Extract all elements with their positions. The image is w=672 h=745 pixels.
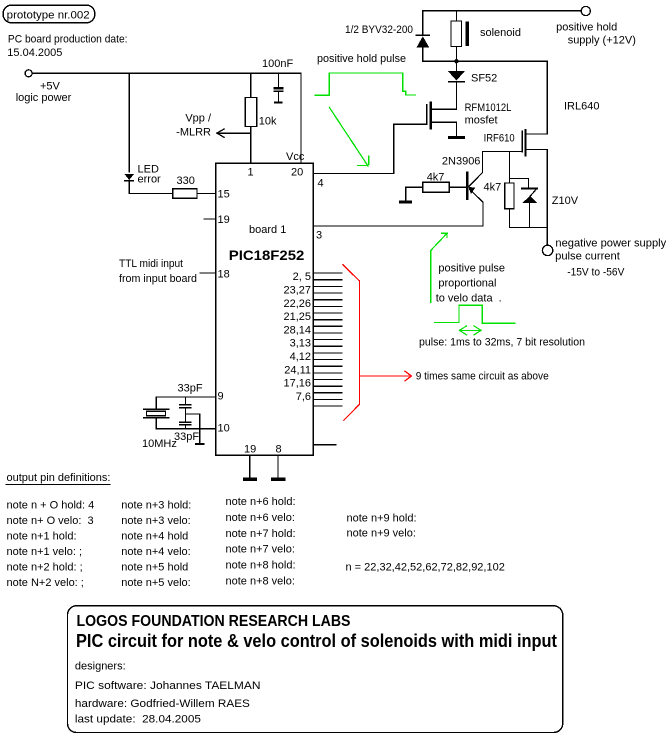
svg-text:IRL640: IRL640	[564, 101, 599, 113]
svg-text:note n+9 velo:: note n+9 velo:	[347, 528, 416, 540]
svg-text:hardware: Godfried-Willem RAES: hardware: Godfried-Willem RAES	[75, 698, 250, 710]
svg-text:positive hold: positive hold	[556, 22, 617, 34]
svg-text:7,6: 7,6	[296, 391, 311, 403]
resistor 330	[173, 175, 197, 198]
svg-text:SF52: SF52	[471, 73, 497, 85]
pin definition column 1	[7, 500, 95, 590]
velo pulse waveform	[435, 305, 515, 335]
svg-text:note n + O hold: 4: note n + O hold: 4	[7, 500, 95, 512]
prototype label box	[3, 5, 95, 23]
svg-text:4k7: 4k7	[427, 172, 445, 184]
svg-text:supply (+12V): supply (+12V)	[568, 35, 636, 47]
svg-text:Z10V: Z10V	[552, 195, 579, 207]
pin 8 ground	[271, 455, 285, 481]
svg-text:Vcc: Vcc	[286, 151, 305, 163]
svg-text:19: 19	[218, 214, 230, 226]
capacitor 33pF bottom	[174, 414, 199, 443]
green arrow velo	[431, 233, 448, 302]
pin pair labels	[283, 271, 311, 403]
pin 18 stub left	[200, 272, 216, 274]
svg-text:8: 8	[276, 444, 282, 456]
negative supply terminal	[542, 228, 666, 279]
PC board production date note	[7, 34, 127, 60]
svg-text:note n+6 velo:: note n+6 velo:	[226, 512, 295, 524]
svg-text:IRF610: IRF610	[484, 133, 515, 145]
svg-text:note n+ O velo: 3: note n+ O velo: 3	[7, 515, 94, 527]
svg-text:3: 3	[316, 230, 322, 242]
svg-text:note n+9 hold:: note n+9 hold:	[347, 513, 417, 525]
svg-text:330: 330	[177, 175, 195, 187]
svg-text:note N+2 velo: ;: note N+2 velo: ;	[7, 577, 84, 589]
svg-text:20: 20	[291, 167, 303, 179]
svg-text:board 1: board 1	[249, 224, 286, 236]
svg-text:positive pulse: positive pulse	[438, 263, 505, 275]
ground base resistor	[399, 201, 412, 204]
resistor 4k7 gate	[484, 151, 515, 227]
svg-text:note n+6 hold:: note n+6 hold:	[226, 496, 296, 508]
svg-text:note n+8 velo:: note n+8 velo:	[226, 576, 295, 588]
svg-text:19: 19	[244, 444, 256, 456]
svg-text:LOGOS FOUNDATION RESEARCH LABS: LOGOS FOUNDATION RESEARCH LABS	[77, 613, 351, 630]
bottom right stub	[313, 444, 336, 446]
svg-text:+5V: +5V	[40, 81, 61, 93]
output pin stubs	[313, 273, 342, 406]
solenoid	[451, 11, 521, 62]
caps midpoint to ground	[185, 414, 199, 443]
svg-text:note n+4 hold: note n+4 hold	[121, 531, 188, 543]
svg-text:PC board production date:: PC board production date:	[8, 34, 128, 46]
pin definition column 4	[346, 513, 505, 574]
svg-text:prototype nr.002: prototype nr.002	[7, 10, 90, 22]
svg-text:10k: 10k	[259, 116, 277, 128]
svg-text:4,12: 4,12	[290, 351, 311, 363]
svg-text:note n+7 hold:: note n+7 hold:	[226, 528, 296, 540]
transistor 2N3906	[442, 151, 483, 226]
red arrow 9x	[359, 371, 411, 381]
wire resistor to pin 15	[197, 192, 216, 194]
wire 10k to pin 1	[250, 126, 252, 163]
svg-text:note n+3 hold:: note n+3 hold:	[121, 500, 191, 512]
svg-text:note n+5 velo:: note n+5 velo:	[121, 577, 190, 589]
capacitor 100nF	[262, 58, 293, 103]
svg-text:logic power: logic power	[16, 92, 72, 104]
svg-text:RFM1012L: RFM1012L	[465, 102, 512, 114]
title box	[68, 606, 563, 733]
node A junction dot	[454, 59, 458, 63]
wire +5V rail	[32, 72, 301, 74]
pin definition column 3	[226, 496, 296, 588]
svg-text:15.04.2005: 15.04.2005	[7, 47, 62, 59]
svg-text:note n+7 velo:: note n+7 velo:	[226, 544, 295, 556]
svg-text:9: 9	[218, 391, 224, 403]
svg-text:4k7: 4k7	[484, 182, 502, 194]
bottom right rail	[509, 227, 547, 229]
svg-text:-15V to -56V: -15V to -56V	[567, 267, 625, 279]
svg-text:note n+4 velo:: note n+4 velo:	[121, 546, 190, 558]
svg-text:proportional: proportional	[438, 278, 496, 290]
wire pin3 rail	[313, 225, 483, 227]
red brace	[343, 265, 359, 420]
wire pin4 to RFM gate	[313, 124, 426, 173]
svg-text:last update: 28.04.2005: last update: 28.04.2005	[75, 714, 201, 726]
diode 1/2 BYV32-200	[345, 11, 430, 62]
svg-text:designers:: designers:	[75, 661, 126, 673]
zener Z10V	[509, 178, 578, 227]
svg-text:100nF: 100nF	[262, 58, 293, 70]
mosfet RFM1012L	[427, 101, 512, 139]
svg-text:PIC software: Johannes TAELMAN: PIC software: Johannes TAELMAN	[75, 680, 261, 692]
svg-text:Vpp /: Vpp /	[185, 113, 212, 125]
svg-text:note n+1 hold:: note n+1 hold:	[7, 531, 77, 543]
green arrow to mosfet	[329, 107, 368, 166]
svg-text:output pin definitions:: output pin definitions:	[7, 472, 111, 484]
svg-text:note n+2 hold: ;: note n+2 hold: ;	[7, 562, 83, 574]
svg-text:23,27: 23,27	[283, 285, 311, 297]
TTL midi note	[119, 258, 197, 285]
svg-text:n = 22,32,42,52,62,72,82,92,10: n = 22,32,42,52,62,72,82,92,102	[346, 562, 505, 574]
+5V input terminal	[16, 70, 72, 104]
capacitor 33pF top	[178, 383, 203, 414]
wire LED to resistor	[129, 182, 173, 194]
svg-text:1: 1	[248, 167, 254, 179]
Vpp / -MLRR arrow	[176, 113, 251, 139]
svg-text:note n+8 hold:: note n+8 hold:	[226, 560, 296, 572]
svg-text:33pF: 33pF	[174, 431, 199, 443]
svg-text:PIC18F252: PIC18F252	[229, 247, 305, 263]
svg-text:TTL midi input: TTL midi input	[119, 258, 183, 270]
positive hold supply terminal	[423, 6, 636, 46]
ground crystal	[195, 443, 205, 445]
svg-text:PIC circuit for note & velo co: PIC circuit for note & velo control of s…	[76, 631, 557, 651]
svg-text:2N3906: 2N3906	[442, 156, 481, 168]
PIC18F252 chip board 1	[216, 163, 314, 455]
pin 19 stub left	[204, 218, 216, 220]
resistor 4k7 base	[406, 172, 466, 201]
svg-text:18: 18	[218, 269, 230, 281]
velo pulse note	[436, 263, 505, 305]
svg-text:error: error	[138, 174, 162, 186]
svg-text:note n+1 velo: ;: note n+1 velo: ;	[7, 546, 83, 558]
resistor 10k	[245, 73, 277, 127]
diode SF52	[448, 61, 497, 109]
svg-text:28,14: 28,14	[283, 324, 311, 336]
svg-text:positive hold pulse: positive hold pulse	[317, 53, 406, 65]
svg-text:24,11: 24,11	[284, 364, 311, 376]
svg-text:-MLRR: -MLRR	[176, 127, 211, 139]
svg-text:to velo data .: to velo data .	[436, 293, 502, 305]
svg-text:3,13: 3,13	[290, 338, 311, 350]
svg-text:note n+3 velo:: note n+3 velo:	[121, 515, 190, 527]
positive hold pulse waveform	[315, 53, 416, 95]
svg-text:10MHz: 10MHz	[142, 438, 177, 450]
svg-text:9 times same circuit as above: 9 times same circuit as above	[416, 371, 549, 383]
svg-text:1/2 BYV32-200: 1/2 BYV32-200	[345, 24, 413, 36]
svg-text:17,16: 17,16	[283, 378, 311, 390]
svg-text:from input board: from input board	[119, 273, 197, 285]
svg-text:solenoid: solenoid	[480, 27, 521, 39]
svg-text:pulse: 1ms to 32ms, 7 bit reso: pulse: 1ms to 32ms, 7 bit resolution	[419, 337, 585, 349]
svg-text:22,26: 22,26	[283, 298, 311, 310]
svg-text:21,25: 21,25	[283, 311, 311, 323]
svg-text:mosfet: mosfet	[465, 115, 498, 127]
crystal 10MHz	[142, 409, 177, 450]
svg-text:15: 15	[218, 189, 230, 201]
svg-text:note n+5 hold: note n+5 hold	[121, 562, 188, 574]
output pin definitions heading	[6, 472, 110, 485]
LED error	[124, 164, 161, 186]
svg-text:2, 5: 2, 5	[293, 271, 311, 283]
svg-text:4: 4	[318, 178, 324, 190]
mosfet IRF610	[483, 61, 547, 227]
svg-text:pulse current: pulse current	[555, 251, 620, 263]
svg-text:negative power supply: negative power supply	[555, 237, 666, 249]
svg-text:33pF: 33pF	[178, 383, 203, 395]
node A wire	[423, 60, 548, 62]
crystal circuit wires	[156, 397, 215, 429]
pin 19 ground	[243, 455, 257, 481]
pin definition column 2	[121, 500, 191, 590]
wire Vcc drop	[286, 73, 305, 163]
wire LED branch	[128, 73, 130, 172]
svg-text:10: 10	[218, 423, 230, 435]
